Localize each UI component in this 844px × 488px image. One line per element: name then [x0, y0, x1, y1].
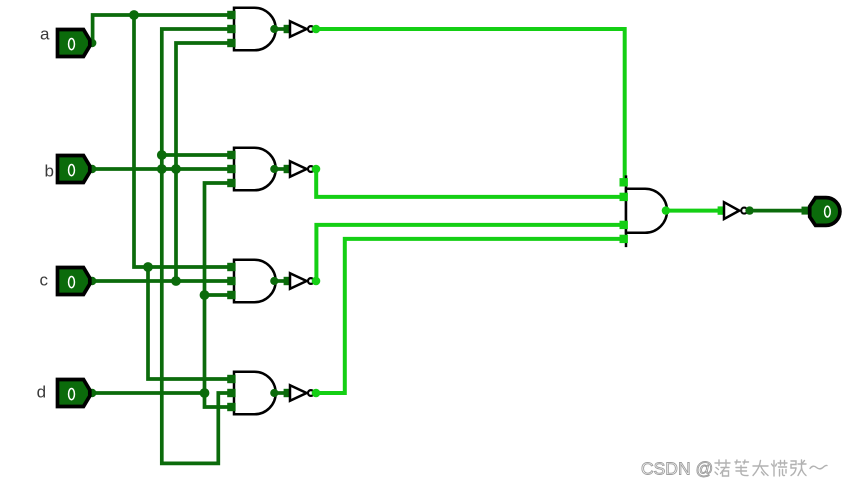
svg-text:d: d: [37, 382, 46, 401]
svg-text:a: a: [40, 25, 50, 44]
svg-text:CSDN @: CSDN @: [641, 459, 713, 479]
svg-text:b: b: [45, 162, 54, 181]
svg-text:c: c: [40, 271, 49, 290]
